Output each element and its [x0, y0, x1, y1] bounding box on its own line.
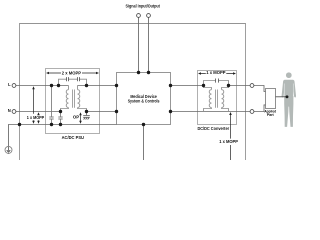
svg-text:System & Controls: System & Controls [128, 99, 160, 104]
svg-text:2 x MOPP: 2 x MOPP [62, 71, 81, 76]
svg-text:DC/DC Converter: DC/DC Converter [197, 126, 229, 131]
svg-text:1 x MOPP: 1 x MOPP [27, 115, 45, 120]
svg-text:Signal Input/Output: Signal Input/Output [126, 3, 161, 8]
svg-text:1 x MOPP: 1 x MOPP [219, 139, 238, 144]
svg-text:OP: OP [73, 115, 79, 120]
svg-text:L: L [8, 82, 11, 87]
svg-text:N: N [8, 108, 11, 113]
svg-text:Part: Part [267, 113, 275, 117]
svg-text:AC/DC PSU: AC/DC PSU [62, 135, 84, 140]
svg-text:1 x MOPP: 1 x MOPP [206, 70, 225, 75]
